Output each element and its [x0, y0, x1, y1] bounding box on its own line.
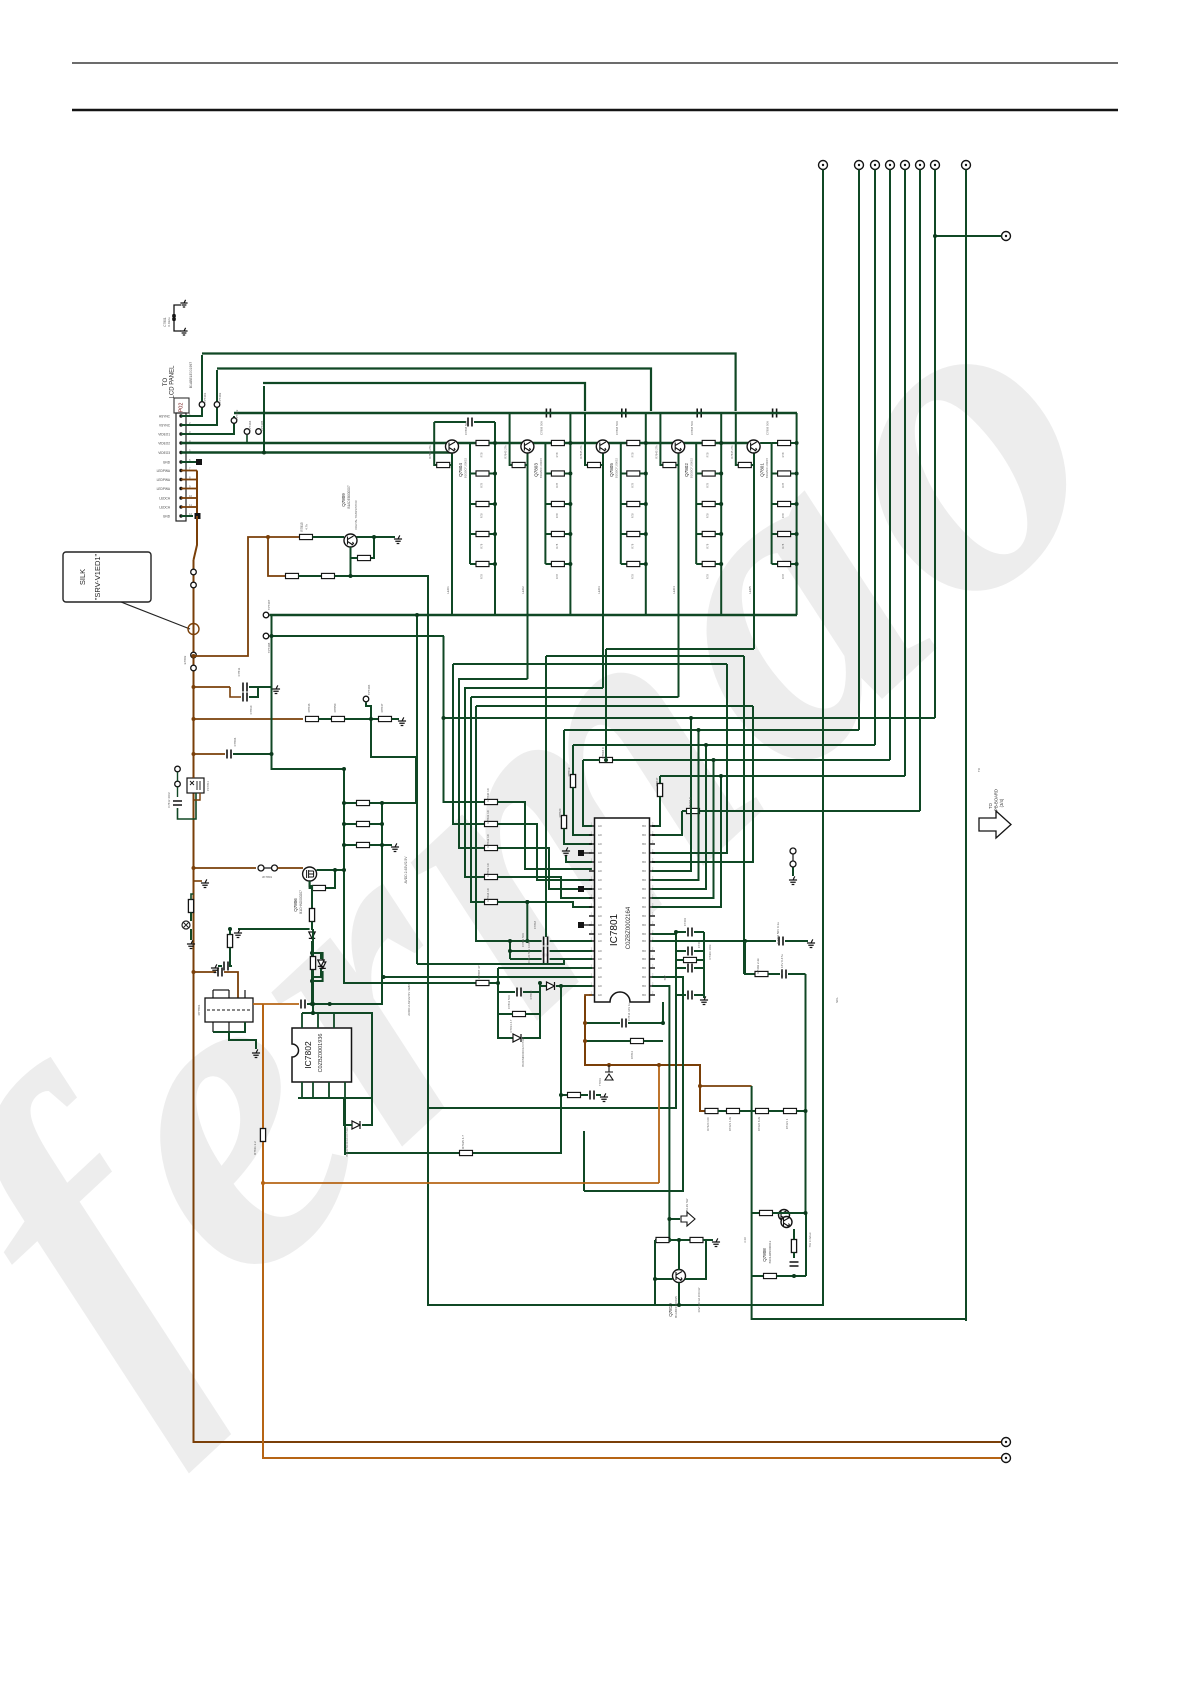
- resistor R7425: [460, 1150, 473, 1155]
- capacitor C7813: [516, 990, 521, 994]
- wire pc top: [193, 770, 195, 778]
- svg-text:VSYNC: VSYNC: [159, 424, 171, 428]
- svg-text:C7808 50V: C7808 50V: [766, 421, 770, 435]
- svg-text:R7845 27k: R7845 27k: [654, 445, 658, 459]
- net arrow SWOUT: [681, 1212, 695, 1226]
- svg-text:AO: AO: [598, 932, 602, 936]
- svg-text:BO: BO: [642, 984, 646, 988]
- capacitor C7408: [781, 972, 786, 976]
- testpoint TP7408: [263, 633, 269, 639]
- wire brown col x=659: [658, 1065, 660, 1183]
- ground: [398, 717, 406, 725]
- resistor R7817: [286, 573, 299, 578]
- zener loop: [312, 953, 323, 961]
- pin 8 LEDPWA: [179, 478, 182, 481]
- resistor R7846: [306, 716, 319, 721]
- pin 12 GND: [179, 514, 182, 517]
- svg-text:R7406 100k: R7406 100k: [708, 944, 712, 960]
- svg-text:R78: R78: [781, 513, 785, 518]
- wire rail x=805 down: [805, 974, 807, 1213]
- resistor R7818: [600, 757, 613, 762]
- capacitor C7814: [621, 1021, 626, 1025]
- testpoint E7805: [175, 781, 181, 787]
- wire x=606 down: [605, 649, 607, 758]
- svg-text:R78: R78: [781, 543, 785, 548]
- resistor R7422: [357, 842, 370, 847]
- terminal P4: [886, 161, 895, 170]
- svg-text:Q7804: Q7804: [458, 463, 463, 477]
- ground: [272, 685, 280, 693]
- IC U7802 body: [292, 1028, 352, 1082]
- svg-text:C7813 50V: C7813 50V: [507, 995, 511, 1009]
- wire ic7802 right loop: [334, 1013, 372, 1125]
- snubber box rails: [498, 968, 514, 1038]
- testpoint TP7402: [214, 402, 220, 408]
- svg-text:R7820: R7820: [558, 808, 562, 817]
- wire emitter Q7804 drop: [451, 453, 453, 615]
- wire wire 776 to pin826R: [659, 776, 661, 784]
- svg-text:R7814 4.7: R7814 4.7: [509, 1019, 513, 1032]
- svg-text:TO: TO: [988, 802, 993, 808]
- resistor R7834: [485, 899, 498, 904]
- svg-text:R78: R78: [630, 574, 634, 579]
- wire y=636 to x=444: [270, 635, 445, 637]
- svg-text:R7831 10: R7831 10: [486, 810, 490, 823]
- wire q7808 top row: [752, 1212, 760, 1214]
- resistor R7426: [568, 1092, 581, 1097]
- wire emitter Q7805 drop: [602, 453, 604, 688]
- svg-text:LEDPWA: LEDPWA: [157, 478, 171, 482]
- wire q7808 bottom row: [752, 1275, 764, 1277]
- wire caps rail x=704: [703, 932, 705, 995]
- wire terminal drop x=875: [874, 170, 876, 746]
- wire row983: [345, 982, 476, 984]
- relay pins: [213, 990, 245, 1032]
- transistor block Q7801: [730, 409, 799, 616]
- svg-text:R7813: R7813: [630, 1050, 634, 1059]
- testpoint TP7404: [244, 429, 250, 435]
- svg-text:TP7402: TP7402: [218, 392, 222, 403]
- svg-text:BO: BO: [642, 824, 646, 828]
- svg-text:R7833 10: R7833 10: [486, 863, 490, 876]
- wire stair 848: [498, 848, 593, 889]
- svg-text:R7404 0: R7404 0: [688, 797, 692, 809]
- svg-text:B1ABCF000015: B1ABCF000015: [674, 1296, 678, 1318]
- svg-text:R78: R78: [630, 452, 634, 457]
- svg-text:R7818 0: R7818 0: [601, 747, 605, 759]
- svg-text:R7815: R7815: [300, 522, 304, 532]
- wire source chain b: [311, 922, 313, 931]
- wire R row 719 b: [345, 718, 380, 720]
- resistor R7851: [379, 716, 392, 721]
- photocoupler PC7811: [187, 778, 204, 793]
- wire terminal drop x=966: [965, 170, 967, 1322]
- svg-text:B1GBCFJJ0015: B1GBCFJJ0015: [464, 457, 468, 478]
- svg-text:TP7403: TP7403: [235, 409, 239, 420]
- resistor R7811 brown: [260, 1129, 265, 1142]
- svg-text:LEDCA: LEDCA: [159, 506, 171, 510]
- wire row1041: [585, 1040, 631, 1042]
- wire col x=683 down: [584, 977, 683, 1191]
- svg-text:AO: AO: [598, 896, 602, 900]
- svg-text:C7814 16V 1u: C7814 16V 1u: [627, 1003, 631, 1021]
- wire caps col x=545 rail: [526, 902, 528, 941]
- wire col x=510: [509, 941, 511, 959]
- wire pin862L gnd: [566, 856, 592, 862]
- svg-text:AO: AO: [598, 833, 602, 837]
- svg-text:R78: R78: [706, 543, 710, 548]
- wire nest left col 443: [444, 636, 485, 802]
- wire nest left col 465: [465, 688, 484, 877]
- wire bus2 y=367: [217, 369, 651, 412]
- diode D7410: [309, 932, 315, 938]
- svg-text:R78: R78: [781, 452, 785, 457]
- svg-text:C7808 50V: C7808 50V: [539, 421, 543, 435]
- testpoint E7803: [191, 652, 197, 658]
- svg-text:SW: SW: [663, 975, 667, 980]
- wire r7873: [793, 1229, 795, 1240]
- terminal P1: [819, 161, 828, 170]
- capacitor C7403: [687, 930, 692, 934]
- wire row964: [417, 959, 564, 964]
- svg-text:VIDEO2: VIDEO2: [158, 442, 170, 446]
- resistor R7420: [357, 800, 370, 805]
- svg-text:GND: GND: [163, 515, 171, 519]
- resistor R7421b: [784, 1108, 797, 1113]
- svg-text:AO: AO: [598, 851, 602, 855]
- transistor Q7809: [344, 534, 357, 547]
- wire wire pin880R up: [652, 730, 699, 880]
- wire row1013: [302, 1012, 334, 1014]
- wire net VCOM bus y=776: [660, 775, 905, 777]
- wire row941: [652, 940, 776, 942]
- svg-text:LEDPWA: LEDPWA: [157, 469, 171, 473]
- svg-text:BO: BO: [642, 860, 646, 864]
- testpoint E7403: [790, 861, 796, 867]
- svg-text:LED2: LED2: [521, 586, 525, 594]
- svg-text:AO: AO: [598, 860, 602, 864]
- wire row1095: [561, 1094, 568, 1096]
- resistor R7833: [485, 874, 498, 879]
- resistor R7852: [309, 909, 314, 922]
- svg-text:R78: R78: [630, 543, 634, 548]
- pin 4 VIDEO2: [179, 441, 182, 444]
- wire bus3 vert x=264: [263, 386, 265, 453]
- svg-text:AO: AO: [598, 939, 602, 943]
- transistor block Q7802: [654, 409, 723, 616]
- svg-text:R7424 100: R7424 100: [706, 1117, 710, 1131]
- svg-text:Q7803: Q7803: [533, 463, 538, 477]
- transistor block Q7803: [504, 409, 573, 616]
- terminal P5: [901, 161, 910, 170]
- svg-text:VIDEO3: VIDEO3: [158, 451, 170, 455]
- capacitor C7820: [543, 957, 548, 961]
- wire x=271 down: [272, 615, 345, 769]
- wire net STV bus y=718: [443, 717, 935, 719]
- wire pc right down: [194, 793, 201, 800]
- wire col x=584: [583, 1131, 585, 1191]
- resistor R7807: [476, 980, 489, 985]
- terminal P3: [871, 161, 880, 170]
- ground: [600, 1093, 608, 1101]
- wire wire 730 to pin844 b: [564, 829, 592, 845]
- wire R row 719 gnd stub: [392, 718, 400, 720]
- wire Q7809 collector: [357, 536, 396, 538]
- capacitor C7406: [778, 939, 783, 943]
- svg-text:BO: BO: [642, 833, 646, 837]
- capacitor C7404: [687, 949, 692, 953]
- terminal P7: [931, 161, 940, 170]
- wire row1098: [298, 1097, 372, 1099]
- wire row1111 b: [740, 1110, 757, 1112]
- wire pin826L: [583, 825, 592, 827]
- wire row983b: [489, 982, 498, 984]
- wire relay right to brown rail: [253, 1003, 263, 1005]
- svg-text:36V/100mA 200mW: 36V/100mA 200mW: [697, 1287, 701, 1312]
- ground: [234, 929, 242, 937]
- surge absorber T7801: [605, 1065, 613, 1080]
- terminal P6: [916, 161, 925, 170]
- resistor R7830: [485, 799, 498, 804]
- svg-text:BO: BO: [642, 887, 646, 891]
- svg-text:RY7801: RY7801: [197, 1004, 201, 1015]
- wire row941L: [476, 940, 542, 942]
- svg-text:C7812 400V: C7812 400V: [167, 792, 171, 808]
- transistor Q7806 mosfet: [303, 867, 317, 881]
- svg-text:C7808 50V: C7808 50V: [690, 421, 694, 435]
- svg-text:R7423 1.8k: R7423 1.8k: [728, 1116, 732, 1131]
- svg-text:C7403: C7403: [683, 917, 687, 926]
- transistor Q7808 dual: [779, 1210, 790, 1221]
- wire loop 974: [768, 973, 780, 975]
- svg-text:B1ABELE001997: B1ABELE001997: [189, 362, 193, 389]
- wire terminal drop x=823: [822, 170, 824, 1307]
- svg-text:R7819: R7819: [567, 767, 571, 776]
- ground: [187, 940, 195, 948]
- svg-text:LED4: LED4: [672, 586, 676, 594]
- svg-text:R78: R78: [706, 452, 710, 457]
- wire Q7806 fb b: [310, 881, 313, 888]
- resistor R7810: [310, 957, 315, 970]
- wire SWOUT col x=669: [652, 986, 669, 1240]
- wire wire 811 to pin835R: [652, 811, 682, 835]
- svg-text:C0ZBZ0002164: C0ZBZ0002164: [626, 906, 632, 949]
- svg-text:AO: AO: [598, 824, 602, 828]
- testpoint E7804: [175, 766, 181, 772]
- testpoint TP7403: [231, 418, 237, 424]
- svg-text:C7811: C7811: [237, 667, 241, 676]
- wire row1111 d: [797, 1110, 806, 1112]
- wire q7808 bottom row b: [777, 1275, 807, 1277]
- svg-text:R7847: R7847: [655, 777, 659, 786]
- resistor R7423: [727, 1108, 740, 1113]
- svg-text:BO: BO: [642, 851, 646, 855]
- svg-text:BO: BO: [642, 869, 646, 873]
- capacitor C7819: [543, 949, 548, 953]
- svg-text:3.3V: 3.3V: [743, 1237, 747, 1243]
- svg-text:C7813: C7813: [529, 990, 533, 999]
- wire brown top relay feed: [194, 971, 217, 973]
- wire net VDD bus y=811 right: [700, 810, 920, 812]
- wire net VGL bus y=745: [573, 744, 875, 746]
- wire Q7809 emitter: [350, 547, 352, 576]
- wire row1111 a: [718, 1110, 727, 1112]
- ground: [807, 939, 815, 947]
- wire brown cap row y=687: [194, 686, 231, 688]
- svg-text:C7818: C7818: [533, 920, 537, 929]
- svg-text:AO: AO: [598, 869, 602, 873]
- svg-text:IC7802: IC7802: [303, 1041, 313, 1069]
- svg-text:LED1: LED1: [446, 586, 450, 594]
- relay RY7801: [205, 998, 253, 1022]
- wire brown switch row y=868: [194, 867, 257, 869]
- capacitor C7816: [223, 964, 228, 968]
- wire arrow stub: [669, 1218, 680, 1220]
- wire pc loop: [178, 793, 197, 819]
- svg-text:TP7408: TP7408: [267, 642, 271, 653]
- capacitor C7818: [543, 939, 548, 943]
- ground: [252, 1049, 260, 1057]
- wire TP7406 stub: [366, 703, 416, 804]
- svg-text:BO: BO: [642, 993, 646, 997]
- testpoint TP7406: [363, 696, 369, 702]
- ground: [211, 964, 219, 972]
- svg-text:LCD PANEL: LCD PANEL: [170, 365, 176, 399]
- capacitor C7457: [792, 1261, 796, 1266]
- wire q7810 box b: [669, 1239, 690, 1241]
- ground: [700, 996, 708, 1004]
- header rule thick: [72, 109, 1118, 112]
- wire row959L: [510, 958, 542, 960]
- svg-text:BO: BO: [642, 932, 646, 936]
- svg-text:R78: R78: [781, 574, 785, 579]
- terminal P9: [1002, 232, 1011, 241]
- resistor R7855: [358, 555, 371, 560]
- resistor R7875: [760, 1210, 773, 1215]
- svg-text:PC7811: PC7811: [206, 781, 210, 791]
- wire row986 diode: [540, 985, 546, 987]
- svg-text:C7406 50V 0.1u: C7406 50V 0.1u: [776, 922, 780, 944]
- svg-text:LEDCA: LEDCA: [159, 497, 171, 501]
- ground: [712, 1238, 720, 1246]
- wire LED+ rail brown: [194, 560, 1002, 1442]
- watermark: [0, 178, 1190, 1475]
- wire wire 776 to pin826R b: [652, 797, 660, 827]
- ground: [394, 535, 402, 543]
- svg-text:R78: R78: [480, 513, 484, 518]
- svg-text:R78: R78: [555, 543, 559, 548]
- diode D7451: [318, 960, 324, 966]
- wire source chain c: [311, 941, 313, 1004]
- resistor R7850: [332, 716, 345, 721]
- svg-text:Q7805: Q7805: [609, 463, 614, 477]
- wire col x=345 down: [344, 1098, 346, 1155]
- svg-text:R7402 2.2k: R7402 2.2k: [756, 958, 760, 974]
- svg-text:Q7809: Q7809: [341, 493, 346, 507]
- test pad E7401: [196, 459, 202, 465]
- wire loop 974b: [788, 973, 806, 975]
- wire stair 802: [498, 802, 593, 869]
- net bus y=649: [606, 648, 754, 650]
- wire brown branch to Q7808: [700, 1085, 752, 1087]
- wire R row 719 a: [319, 718, 333, 720]
- svg-text:Q7802: Q7802: [684, 463, 689, 477]
- svg-text:AO: AO: [598, 993, 602, 997]
- wire col x=676 down: [428, 995, 676, 1108]
- test pad E7405: [578, 850, 584, 856]
- testpoint TP7801: [182, 921, 190, 929]
- wire gnd branch: [194, 880, 203, 882]
- svg-text:E7803: E7803: [183, 655, 187, 664]
- resistor R7814: [513, 1011, 526, 1016]
- bus y=413: [234, 412, 797, 414]
- wire row1023: [585, 1022, 620, 1024]
- wire col x=417: [416, 615, 418, 964]
- wire cap loop 697 right: [249, 687, 258, 697]
- resistor R7849: [313, 885, 326, 890]
- svg-text:B1ADEB000007: B1ADEB000007: [347, 485, 351, 508]
- resistor R7861: [690, 1237, 703, 1242]
- wire row951L: [510, 950, 542, 952]
- wire wire 745 to pin835 b: [573, 788, 592, 836]
- svg-text:Q7801: Q7801: [760, 463, 765, 477]
- svg-text:(3/4): (3/4): [999, 798, 1004, 807]
- svg-text:BO: BO: [642, 957, 646, 961]
- svg-text:C7810: C7810: [249, 705, 253, 714]
- resistor R7876: [764, 1273, 777, 1278]
- resistor R7424: [705, 1108, 718, 1113]
- wire nest left col 476: [476, 706, 540, 941]
- IC U7801 body: [595, 818, 650, 1002]
- wire nest left col 471: [471, 697, 484, 902]
- svg-text:Q7806: Q7806: [293, 898, 298, 912]
- wire row1095b: [581, 1094, 589, 1096]
- resistor R7815: [300, 534, 313, 539]
- svg-text:AVDD 2-63V/2.5V 4WR: AVDD 2-63V/2.5V 4WR: [407, 983, 411, 1015]
- wire cap loop y=697: [230, 687, 241, 697]
- wire base row y=576: [268, 537, 286, 576]
- svg-text:BO: BO: [642, 975, 646, 979]
- resistor R7860: [656, 1237, 669, 1242]
- svg-text:C7804: C7804: [233, 737, 237, 746]
- diode D7451 loop: [313, 953, 321, 959]
- capacitor C7817: [217, 970, 222, 974]
- wire emitter Q7801 drop: [753, 453, 755, 649]
- wire resistor row y=1111: [705, 1110, 707, 1112]
- svg-text:BO: BO: [642, 914, 646, 918]
- wire emitter Q7802 drop: [678, 453, 680, 697]
- svg-text:R7830 10: R7830 10: [486, 788, 490, 801]
- wire q7808 right rail: [805, 1213, 807, 1276]
- svg-text:JK7801: JK7801: [262, 875, 273, 879]
- diode D7411 zener: [319, 962, 325, 968]
- diode D7415: [513, 1034, 521, 1042]
- svg-text:R7807 47: R7807 47: [477, 965, 481, 978]
- svg-text:BO: BO: [642, 905, 646, 909]
- resistor R7813: [631, 1038, 644, 1043]
- svg-text:R78: R78: [480, 452, 484, 457]
- wire brown relay feed b: [224, 972, 238, 998]
- wire wire pin907R up: [652, 776, 721, 907]
- svg-text:R78: R78: [781, 482, 785, 487]
- svg-text:R78: R78: [706, 574, 710, 579]
- wire stair 877: [498, 877, 593, 898]
- svg-text:BO: BO: [642, 923, 646, 927]
- wire Q7806 drain: [317, 869, 345, 871]
- terminal LED+: [1002, 1438, 1011, 1447]
- svg-text:LED3: LED3: [597, 586, 601, 594]
- resistor R7402: [755, 971, 768, 976]
